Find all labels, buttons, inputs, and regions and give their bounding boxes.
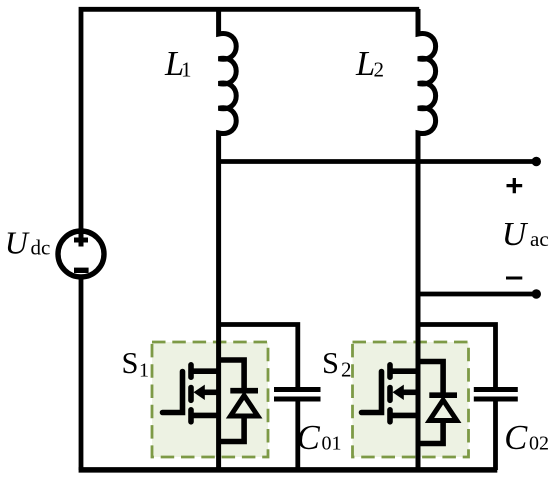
- wire C01 to bottom rail: [295, 402, 300, 471]
- svg-text:02: 02: [529, 433, 549, 455]
- wire C02 to bottom rail: [493, 402, 498, 471]
- svg-text:S: S: [122, 346, 139, 380]
- channel bars: [387, 365, 393, 377]
- source stub: [390, 413, 418, 419]
- transistor S2 (MOSFET with body diode): [362, 362, 458, 444]
- svg-text:ac: ac: [530, 227, 549, 251]
- svg-text:C: C: [504, 419, 528, 457]
- gate lead: [362, 372, 382, 413]
- capacitor C01: [219, 325, 321, 471]
- wire S1 drain node to C01: [219, 325, 298, 388]
- wire S2 drain node to C02: [418, 325, 496, 388]
- label - (output): [506, 276, 522, 279]
- S1 switch box: [152, 342, 268, 457]
- svg-text:1: 1: [139, 360, 149, 382]
- wire bottom rail: [79, 467, 498, 473]
- svg-text:1: 1: [181, 58, 192, 82]
- wire mid (+ output): [219, 159, 536, 164]
- plus mark of Udc: [74, 234, 88, 247]
- minus mark of Udc: [74, 268, 89, 273]
- channel bars: [188, 365, 194, 377]
- source Udc: [58, 231, 104, 277]
- svg-text:2: 2: [374, 58, 385, 82]
- drain stub: [390, 368, 418, 374]
- inductor L2: [418, 9, 436, 470]
- body stub + arrow: [403, 389, 418, 395]
- wire top rail: [81, 9, 419, 231]
- svg-text:01: 01: [322, 433, 342, 455]
- svg-text:U: U: [5, 224, 30, 260]
- svg-text:C: C: [297, 419, 321, 457]
- node - terminal dot: [532, 289, 541, 298]
- svg-text:U: U: [502, 216, 529, 253]
- svg-text:2: 2: [341, 358, 352, 382]
- diode D2: [418, 362, 443, 398]
- svg-text:L: L: [355, 45, 375, 83]
- S2 switch box: [353, 342, 469, 457]
- svg-text:dc: dc: [31, 236, 51, 260]
- capacitor C02: [418, 325, 518, 471]
- drain stub: [191, 368, 219, 374]
- inductor L1: [219, 9, 237, 470]
- body stub + arrow: [204, 389, 219, 395]
- capacitor C02 plates: [474, 390, 518, 400]
- source stub: [191, 413, 219, 419]
- transistor S1 (MOSFET with body diode): [163, 360, 259, 442]
- capacitor C01 plates: [274, 390, 321, 400]
- node + terminal dot: [532, 157, 541, 166]
- diode D1: [219, 360, 244, 393]
- svg-text:S: S: [322, 346, 339, 380]
- label + (output): [507, 178, 523, 193]
- gate lead: [163, 372, 183, 413]
- wire left lower (Udc to bottom): [79, 277, 84, 470]
- wire - output: [418, 292, 536, 297]
